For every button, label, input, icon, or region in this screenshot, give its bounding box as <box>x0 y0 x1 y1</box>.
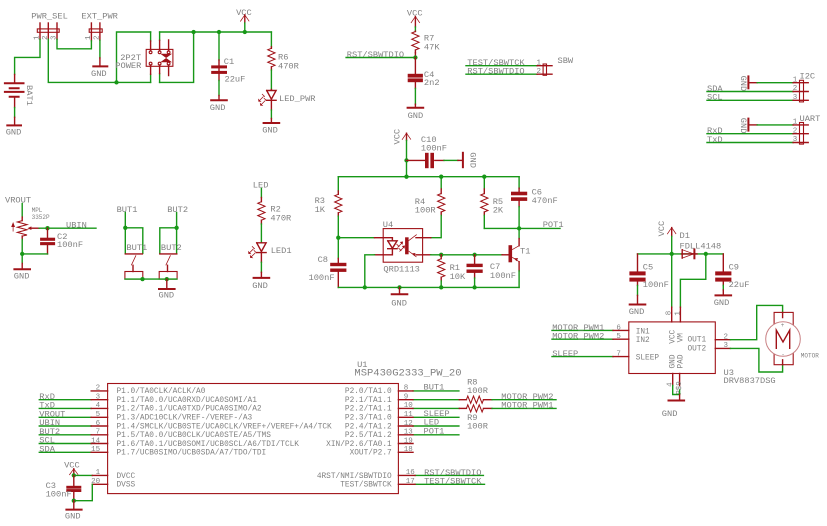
svg-text:18: 18 <box>404 446 413 454</box>
wire LED_PWR to ground <box>270 110 272 119</box>
net SLEEP at U1 <box>413 409 459 419</box>
pin 1 PWR_SEL <box>39 23 41 39</box>
svg-text:BAT1: BAT1 <box>24 85 34 106</box>
svg-text:GND: GND <box>14 272 30 282</box>
pin 2 PWR_SEL <box>47 23 49 39</box>
connector UART <box>800 114 821 144</box>
ground LED1 <box>252 272 269 291</box>
svg-text:OUT1: OUT1 <box>688 337 707 345</box>
junction VCC rail <box>243 30 247 34</box>
junction BUT2 <box>174 226 178 230</box>
wire C6 bottom <box>518 207 520 229</box>
svg-text:VCC: VCC <box>64 461 80 471</box>
wire 2P2T col1 bottom <box>150 74 152 82</box>
svg-text:GND: GND <box>262 125 278 135</box>
svg-text:VCC: VCC <box>657 221 667 237</box>
svg-text:SDA: SDA <box>39 445 55 455</box>
resistor R4 <box>415 189 445 215</box>
net BUT2 at U1 <box>39 427 91 437</box>
wire C9 to ground <box>722 285 724 290</box>
LED LED1 <box>248 243 292 262</box>
net VROUT label <box>5 195 31 217</box>
svg-text:100R: 100R <box>467 386 488 396</box>
junction rail U4 cathode <box>363 285 367 289</box>
svg-text:47K: 47K <box>424 42 440 52</box>
svg-text:IN1: IN1 <box>636 328 650 336</box>
wire PWR_SEL.3 to EXT_PWR.1 <box>57 39 91 49</box>
wire R5 top <box>483 177 485 189</box>
net RST/SBWTDIO wire at SBW <box>466 67 537 77</box>
net MOTOR_PWM1 at U3 <box>552 323 613 333</box>
ground UART pin1 <box>738 118 757 134</box>
wire DVCC <box>74 474 93 476</box>
wire I2C pin1 <box>757 82 793 84</box>
wire sensor bottom rail <box>338 286 519 288</box>
svg-text:P2.5/TA1.2: P2.5/TA1.2 <box>345 432 392 440</box>
net POT1 at U1 <box>413 426 459 436</box>
ground C4 <box>408 104 424 121</box>
wire C7 bottom <box>474 278 476 287</box>
LED LED_PWR <box>258 89 316 110</box>
wire buttons bottom rail <box>125 278 177 280</box>
junction rail C7 <box>472 285 476 289</box>
wire U4 emitter to T1 base <box>431 254 502 256</box>
svg-text:POT1: POT1 <box>424 426 445 436</box>
pin 2 SBW <box>537 73 552 75</box>
battery BAT1 <box>5 74 34 107</box>
svg-text:3: 3 <box>793 136 798 144</box>
svg-text:1: 1 <box>793 119 798 127</box>
net UBIN <box>39 220 96 230</box>
switch BUT2 <box>159 243 182 279</box>
svg-text:3: 3 <box>793 94 798 102</box>
svg-text:GND: GND <box>6 128 22 138</box>
pin 3 UART <box>793 142 808 144</box>
power VCC at U3 <box>657 221 676 237</box>
junction BUT1 <box>123 226 127 230</box>
wire VM staircase <box>680 254 705 307</box>
svg-text:DVSS: DVSS <box>117 482 136 490</box>
junction C3/DVSS <box>72 499 76 503</box>
net TEST/SBWTCK at U1 <box>415 477 484 487</box>
wire OUT1 to motor top <box>730 305 782 339</box>
svg-text:8: 8 <box>404 385 409 393</box>
wire 2P2T right bypass <box>160 32 194 82</box>
pin 1 U1 DVCC <box>92 474 107 476</box>
capacitor C5 <box>629 254 668 290</box>
pin 7 U3 SLEEP <box>613 356 629 358</box>
net BUT1 label <box>117 205 138 228</box>
junction D1 cathode <box>704 252 708 256</box>
net SCL <box>707 93 793 103</box>
net LED at U1 <box>413 418 459 428</box>
svg-text:3: 3 <box>96 394 101 402</box>
capacitor C8 <box>309 255 347 287</box>
ground sensor <box>391 287 407 308</box>
svg-text:XIN/P2.6/TA0.1: XIN/P2.6/TA0.1 <box>326 441 392 449</box>
net POT1 <box>484 220 563 230</box>
wire R6 branch <box>270 32 272 47</box>
svg-text:LED_PWR: LED_PWR <box>279 94 316 104</box>
svg-text:QRD1113: QRD1113 <box>383 265 420 275</box>
junction trimmer/C2 <box>20 252 24 256</box>
svg-text:1: 1 <box>85 35 93 40</box>
svg-text:1K: 1K <box>315 205 326 215</box>
svg-text:XOUT/P2.7: XOUT/P2.7 <box>350 450 392 458</box>
svg-text:TxD: TxD <box>707 135 723 145</box>
wire EXT_PWR.2 to ground <box>99 40 101 58</box>
svg-text:BUT1: BUT1 <box>117 205 138 215</box>
svg-text:P2.4/TA1.2: P2.4/TA1.2 <box>345 423 392 431</box>
net RxD at U1 <box>39 392 91 402</box>
power VCC top-left <box>236 8 252 23</box>
junction rail R1 <box>439 285 443 289</box>
svg-text:GND: GND <box>714 298 730 308</box>
svg-text:T1: T1 <box>520 246 530 256</box>
net UBIN at U1 <box>39 418 91 428</box>
power VCC at C10 <box>392 129 411 145</box>
wire R3 top <box>337 177 339 191</box>
svg-text:1: 1 <box>793 76 798 84</box>
svg-text:2: 2 <box>793 85 798 93</box>
svg-text:MOTOR: MOTOR <box>801 352 819 359</box>
junction rail R4 <box>439 175 443 179</box>
pin 1 SBW <box>537 65 552 67</box>
svg-text:2: 2 <box>536 68 541 76</box>
svg-text:BUT1: BUT1 <box>126 243 147 253</box>
wire U4 cathode to bottom rail <box>365 255 375 288</box>
IC U1 MSP430G2333 <box>108 360 462 494</box>
net SLEEP at U3 <box>552 349 613 359</box>
junction DVCC <box>72 473 76 477</box>
pin 15 U1 <box>91 451 107 453</box>
junction R7/C4 <box>413 55 417 59</box>
pin 4 U1 <box>91 407 107 409</box>
svg-text:IN2: IN2 <box>636 337 650 345</box>
svg-text:GND: GND <box>91 69 107 79</box>
net SDA <box>707 84 793 94</box>
connector PWR_SEL <box>31 12 68 40</box>
svg-text:SLEEP: SLEEP <box>552 349 578 359</box>
capacitor C9 <box>715 254 749 290</box>
wire R6 to LED_PWR <box>270 70 272 89</box>
svg-text:RST/SBWTDIO: RST/SBWTDIO <box>347 50 404 60</box>
svg-text:4: 4 <box>96 402 101 410</box>
resistor R3 <box>315 191 342 216</box>
pin 13 U1 <box>398 434 413 436</box>
wire sensor top rail <box>338 176 519 178</box>
net MOTOR_PWM1 at R9 <box>492 400 556 410</box>
svg-text:DRV8837DSG: DRV8837DSG <box>724 376 776 386</box>
wire PWR_SEL.2 to bottom rail <box>48 39 150 82</box>
svg-text:100nF: 100nF <box>490 271 516 281</box>
pin collector U4 <box>423 237 431 239</box>
svg-text:C8: C8 <box>318 255 328 265</box>
connector EXT_PWR <box>81 12 118 41</box>
capacitor C3 <box>46 475 82 500</box>
pin 1 UART <box>793 124 808 126</box>
resistor R7 <box>412 31 441 53</box>
pin 4 U3 GND <box>672 374 674 386</box>
junction rail VCC <box>404 175 408 179</box>
wire pin9 to R8 <box>413 399 459 401</box>
svg-text:470nF: 470nF <box>532 196 558 206</box>
svg-text:6: 6 <box>616 324 621 332</box>
pin emitter U4 <box>423 254 431 256</box>
ground EXT_PWR <box>91 58 107 79</box>
motor MOTOR <box>766 312 820 364</box>
power VCC at R7 <box>407 8 423 27</box>
pin anode U4 <box>375 237 384 239</box>
U4 light arrows <box>397 243 405 252</box>
pin 5 U1 <box>91 416 107 418</box>
resistor R5 <box>481 189 504 215</box>
pin 10 U1 <box>398 407 413 409</box>
svg-text:3352P: 3352P <box>32 214 50 221</box>
capacitor C6 <box>511 188 558 207</box>
pin 6 U3 IN1 <box>613 329 629 331</box>
pin 17 U1 <box>398 483 415 485</box>
ground BAT1 <box>6 117 22 137</box>
opto U4 QRD1113 <box>375 220 431 275</box>
svg-text:P1.6/TA0.1/UCB0SOMI/UCB0SCL/A6: P1.6/TA0.1/UCB0SOMI/UCB0SCL/A6/TDI/TCLK <box>117 441 300 449</box>
wire PWR_SEL.1 to battery <box>15 39 40 74</box>
wire C8 drop <box>337 238 339 259</box>
net RST/SBWTDIO at R7 <box>346 50 415 60</box>
pin P$9 U3 PAD <box>679 374 681 386</box>
ground I2C pin1 <box>738 76 757 92</box>
junction C1 top <box>217 30 221 34</box>
svg-text:5: 5 <box>616 333 621 341</box>
svg-text:100nF: 100nF <box>309 273 335 283</box>
ground buttons <box>159 279 175 300</box>
junction right bypass <box>191 30 195 34</box>
ground LED_PWR <box>262 119 279 136</box>
wire VCC symbol drop <box>244 23 246 32</box>
wire 2P2T col2 bottom <box>159 74 161 83</box>
wire C5 to ground <box>637 285 639 295</box>
resistor R1 <box>438 255 466 282</box>
wire C1 drop <box>218 32 220 60</box>
pin 18 U1 <box>398 451 413 453</box>
svg-text:17: 17 <box>406 478 415 486</box>
svg-text:16: 16 <box>406 469 416 477</box>
pin 8 U1 <box>398 390 413 392</box>
pin 3 PWR_SEL <box>56 23 58 39</box>
svg-text:GND: GND <box>662 409 678 419</box>
svg-text:7: 7 <box>616 351 621 359</box>
wire R4 top <box>440 177 442 189</box>
junction UBIN/C2 <box>45 226 49 230</box>
svg-text:12: 12 <box>404 420 413 428</box>
svg-text:1: 1 <box>675 311 683 316</box>
ground VROUT divider <box>14 263 30 281</box>
svg-text:PAD: PAD <box>677 354 685 368</box>
ground C5 <box>629 295 646 317</box>
svg-text:D1: D1 <box>680 231 690 241</box>
net SCL at U1 <box>39 436 91 446</box>
net TxD <box>707 135 793 145</box>
svg-text:7: 7 <box>96 429 101 437</box>
pin 9 U1 <box>398 399 413 401</box>
svg-text:100nF: 100nF <box>421 143 447 153</box>
wire U3 ground link <box>673 386 680 395</box>
ground C10 <box>458 152 477 168</box>
svg-text:22uF: 22uF <box>225 75 246 85</box>
pin 3 U1 <box>91 399 107 401</box>
svg-text:PWR_SEL: PWR_SEL <box>31 12 68 22</box>
diode D1 FDLL4148 <box>680 231 722 258</box>
svg-text:P1.0/TA0CLK/ACLK/A0: P1.0/TA0CLK/ACLK/A0 <box>117 388 206 396</box>
wire VCC symbol to rail <box>671 236 673 254</box>
svg-text:2: 2 <box>793 127 798 135</box>
svg-text:470R: 470R <box>270 214 291 224</box>
svg-text:UBIN: UBIN <box>66 220 87 230</box>
pin 11 U1 <box>398 416 413 418</box>
wire R1 bottom <box>440 281 442 287</box>
wire R4 bottom to U4 collector <box>431 215 441 237</box>
svg-text:C9: C9 <box>729 262 739 272</box>
svg-text:SCL: SCL <box>707 93 723 103</box>
IC U3 DRV8837 <box>629 322 776 386</box>
wire battery to ground <box>14 108 16 118</box>
pin 14 U1 <box>91 443 107 445</box>
pin 3 U3 OUT2 <box>715 347 730 349</box>
switch BUT1 <box>125 243 147 279</box>
junction POT1/T1 <box>517 226 521 230</box>
net MOTOR_PWM2 at U3 <box>552 332 613 342</box>
svg-text:LED1: LED1 <box>271 246 292 256</box>
svg-text:470R: 470R <box>278 61 299 71</box>
svg-text:5: 5 <box>96 411 101 419</box>
svg-text:P2.2/TA1.1: P2.2/TA1.1 <box>345 406 392 414</box>
wire 2P2T col2 top <box>159 32 161 40</box>
wire C10 to ground <box>444 159 458 161</box>
svg-text:MOTOR_PWM2: MOTOR_PWM2 <box>552 332 604 342</box>
resistor R6 <box>268 47 299 72</box>
net RST/SBWTDIO at U1 <box>415 468 483 478</box>
resistor R8 <box>459 378 492 404</box>
svg-text:2K: 2K <box>493 205 504 215</box>
net TEST/SBWTCK wire <box>466 58 537 68</box>
svg-text:RST/SBWTDIO: RST/SBWTDIO <box>467 67 524 77</box>
pin 1 EXT_PWR <box>90 23 92 41</box>
svg-text:BUT2: BUT2 <box>161 243 182 253</box>
svg-text:SBW: SBW <box>558 56 574 66</box>
svg-text:LED: LED <box>253 181 269 191</box>
svg-text:TEST/SBWTCK: TEST/SBWTCK <box>340 482 392 490</box>
net BUT2 label <box>167 205 188 228</box>
junction C7 top <box>472 253 476 257</box>
wire BUT1 loop <box>125 228 143 254</box>
svg-text:GND: GND <box>629 307 645 317</box>
svg-text:P1.7/UCB0SIMO/UCB0SDA/A7/TDO/T: P1.7/UCB0SIMO/UCB0SDA/A7/TDO/TDI <box>117 450 267 458</box>
ground U3 <box>662 395 684 420</box>
wire VCC to R7 <box>414 27 416 31</box>
svg-text:GND: GND <box>738 76 748 92</box>
svg-text:22uF: 22uF <box>729 280 750 290</box>
pin 1 U3 VM <box>679 307 681 322</box>
pin 2 EXT_PWR <box>99 23 101 40</box>
pin cathode U4 <box>375 254 384 256</box>
svg-text:1: 1 <box>96 469 101 477</box>
pin 2 U1 <box>91 390 107 392</box>
svg-text:10K: 10K <box>450 272 466 282</box>
net RxD <box>707 126 793 136</box>
svg-text:P2.3/TA1.0: P2.3/TA1.0 <box>345 415 392 423</box>
svg-text:100R: 100R <box>415 205 436 215</box>
wire T1 emitter to bottom rail <box>518 271 520 288</box>
svg-text:C5: C5 <box>643 262 653 272</box>
svg-text:P1.5/TA0.0/UCB0CLK/UCA0STE/A5/: P1.5/TA0.0/UCB0CLK/UCA0STE/A5/TMS <box>117 432 272 440</box>
wire 2P2T left bypass <box>117 32 151 82</box>
svg-text:14: 14 <box>91 437 101 445</box>
wire pin10 to R9 <box>413 407 459 409</box>
svg-text:DVCC: DVCC <box>117 473 136 481</box>
wire C6 top <box>518 177 520 189</box>
capacitor C7 <box>467 255 516 281</box>
svg-text:3: 3 <box>724 342 729 350</box>
switch S1 2P2T POWER <box>115 40 173 76</box>
svg-text:10: 10 <box>404 402 414 410</box>
svg-text:C1: C1 <box>224 57 234 67</box>
wire UART pin1 <box>757 124 793 126</box>
wire T1 collector from POT1 <box>518 228 520 238</box>
pin 6 U1 <box>91 425 107 427</box>
svg-text:GND: GND <box>65 511 81 521</box>
svg-text:MSP430G2333_PW_20: MSP430G2333_PW_20 <box>354 367 461 379</box>
svg-text:VM: VM <box>677 333 685 343</box>
junction VCC/U3 <box>670 252 674 256</box>
svg-text:VROUT: VROUT <box>5 195 31 205</box>
svg-text:P1.3/ADC10CLK/VREF-/VEREF-/A3: P1.3/ADC10CLK/VREF-/VEREF-/A3 <box>117 415 253 423</box>
connector I2C <box>800 72 816 102</box>
svg-text:11: 11 <box>404 411 414 419</box>
svg-text:GND: GND <box>210 103 226 113</box>
wire 2P2T col1 top <box>150 32 152 41</box>
svg-text:GND: GND <box>159 290 175 300</box>
svg-text:GND: GND <box>252 281 268 291</box>
svg-text:P1.1/TA0.0/UCA0RXD/UCA0SOMI/A1: P1.1/TA0.0/UCA0RXD/UCA0SOMI/A1 <box>117 397 258 405</box>
svg-text:9: 9 <box>404 394 409 402</box>
svg-text:2n2: 2n2 <box>424 78 440 88</box>
svg-text:EXT_PWR: EXT_PWR <box>81 12 118 22</box>
wire C4 to ground <box>414 88 416 104</box>
pin 2 I2C <box>793 91 808 93</box>
ground C3 <box>65 501 82 522</box>
svg-text:1: 1 <box>536 59 541 67</box>
net VROUT at U1 <box>39 410 91 420</box>
wire OUT2 to motor bottom <box>730 348 782 372</box>
junction R1 top <box>439 253 443 257</box>
junction rail R5 <box>482 175 486 179</box>
junction buttons rail 2 <box>165 277 169 281</box>
transistor T1 <box>502 239 530 271</box>
svg-text:P1.4/SMCLK/UCB0STE/UCA0CLK/VRE: P1.4/SMCLK/UCB0STE/UCA0CLK/VREF+/VEREF+/… <box>117 423 333 431</box>
wire LED1 to ground <box>260 262 262 272</box>
svg-text:GND: GND <box>738 118 748 134</box>
ground C1 <box>210 96 227 113</box>
svg-text:-: - <box>781 352 785 359</box>
svg-text:2: 2 <box>724 333 729 341</box>
resistor R9 <box>459 405 492 432</box>
svg-text:+: + <box>781 322 785 329</box>
pin 5 U3 IN2 <box>613 338 629 340</box>
wire C2 bottom to trimmer bottom <box>22 240 47 264</box>
svg-text:FDLL4148: FDLL4148 <box>680 241 722 251</box>
svg-text:VCC: VCC <box>669 329 677 343</box>
net LED label <box>253 181 269 198</box>
